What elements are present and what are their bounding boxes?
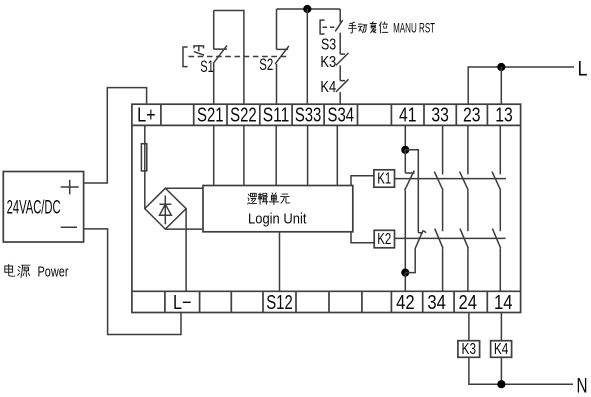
- plus symbol: [61, 180, 79, 195]
- wire node C to S33: [306, 9, 308, 104]
- wire 13-14 mid: [499, 190, 501, 231]
- wire top to S3: [339, 9, 341, 23]
- svg-text:S22: S22: [230, 105, 257, 127]
- minus symbol: [61, 226, 77, 228]
- svg-text:S34: S34: [328, 105, 355, 127]
- svg-text:13: 13: [495, 105, 513, 127]
- svg-text:24: 24: [459, 292, 478, 314]
- wire S11-S2 loop top: [277, 8, 341, 10]
- contact K2 NO 33-34: [435, 229, 443, 249]
- label dianyuan 源: [18, 265, 30, 277]
- svg-text:K4: K4: [320, 79, 336, 96]
- wire S34 to logic unit: [336, 125, 338, 185]
- svg-text:S2: S2: [259, 55, 273, 74]
- wire rectifier to L- terminal: [185, 209, 187, 292]
- wire 23 down: [467, 125, 469, 174]
- label shoudong fuwei 复: [370, 22, 376, 33]
- svg-text:MANU RST: MANU RST: [393, 19, 435, 35]
- label dianyuan 电: [5, 264, 15, 276]
- svg-text:Login Unit: Login Unit: [248, 210, 307, 227]
- node B junction dot: [401, 269, 409, 277]
- L supply line: [468, 67, 574, 104]
- contact K2 NO 13-14: [492, 229, 500, 249]
- mechanical link dashed: [189, 56, 290, 58]
- svg-text:K1: K1: [377, 171, 391, 188]
- svg-text:L: L: [578, 58, 588, 81]
- switch S2 NC: [275, 9, 289, 104]
- contact K1 NC 41-42: [405, 150, 415, 191]
- wire node B to terminal 42: [404, 273, 406, 292]
- main relay body: [132, 104, 521, 312]
- wire to 34: [442, 248, 444, 291]
- wire 33 down: [442, 125, 444, 174]
- svg-text:24VAC/DC: 24VAC/DC: [7, 198, 61, 219]
- contactor coil K4: [491, 341, 512, 358]
- wire S22 to logic unit: [243, 125, 245, 185]
- wire K4 to N: [500, 357, 502, 384]
- svg-text:33: 33: [431, 105, 449, 127]
- wire to 24: [467, 248, 469, 291]
- wire plus to L+: [84, 88, 147, 183]
- contact K1 NO 33-34: [434, 172, 443, 191]
- svg-text:K3: K3: [462, 341, 477, 358]
- label luoji danyuan 单: [269, 193, 278, 205]
- node C junction dot: [303, 5, 311, 13]
- svg-text:L−: L−: [173, 292, 192, 314]
- bottom terminal row: [132, 291, 521, 312]
- svg-text:23: 23: [463, 105, 481, 127]
- wire 23-24 mid: [467, 190, 469, 231]
- svg-text:S1: S1: [200, 57, 214, 76]
- wire logic unit to S12: [279, 232, 281, 291]
- node N junction dot: [497, 380, 505, 388]
- wire S21-S1-S22 loop top: [214, 11, 244, 105]
- label luoji danyuan 元: [280, 194, 289, 203]
- svg-text:S12: S12: [266, 292, 293, 314]
- wire minus to L-: [84, 229, 181, 335]
- switch S1 NC: [213, 11, 227, 105]
- svg-text:L+: L+: [137, 105, 156, 127]
- svg-text:14: 14: [494, 292, 513, 314]
- wire S33 to logic unit: [307, 125, 309, 185]
- wire rectifier top to logic unit: [165, 187, 203, 189]
- label shoudong fuwei 位: [380, 22, 388, 33]
- bypass wire node A down: [405, 150, 418, 233]
- top terminal row: [132, 104, 521, 125]
- svg-text:42: 42: [396, 292, 415, 314]
- power supply box 24VAC/DC: [3, 172, 83, 243]
- K1 actuation line: [395, 178, 507, 180]
- svg-text:Power: Power: [38, 263, 69, 280]
- wire logic unit to K2: [351, 232, 374, 243]
- reset button actuator: [320, 20, 324, 34]
- relay coil K2: [374, 230, 394, 248]
- svg-text:K3: K3: [320, 54, 336, 71]
- label shoudong fuwei 手: [348, 22, 356, 33]
- wire 41 to node A: [404, 125, 406, 149]
- node L junction dot: [497, 63, 505, 71]
- svg-text:S11: S11: [263, 105, 290, 127]
- wire S11 to logic unit: [275, 125, 277, 185]
- contact K2 NO 23-24: [460, 229, 468, 249]
- label luoji danyuan 辑: [258, 193, 268, 204]
- svg-text:K4: K4: [494, 341, 509, 358]
- wire logic unit to K1: [351, 176, 374, 186]
- wire 13 down: [499, 125, 501, 174]
- wire node L to 13: [500, 67, 502, 104]
- wire 14 to K4 coil: [500, 313, 502, 341]
- reset actuator dashes: [323, 26, 336, 28]
- svg-text:N: N: [577, 374, 588, 397]
- N supply line: [469, 357, 573, 384]
- svg-text:K2: K2: [377, 231, 391, 248]
- contact K1 NO 23-24: [460, 172, 469, 191]
- logic unit box: [203, 186, 353, 232]
- wire S3 to K3 contact: [339, 33, 341, 54]
- contactor coil K3: [458, 341, 480, 358]
- wire S21 to logic unit: [213, 125, 215, 185]
- node A junction dot: [401, 146, 409, 154]
- wire 24 to K3 coil: [468, 313, 470, 341]
- K2 actuation line: [395, 237, 506, 239]
- svg-text:S33: S33: [295, 105, 322, 127]
- svg-text:S21: S21: [197, 105, 224, 127]
- bridge rectifier: [145, 188, 186, 229]
- wire to 14: [499, 248, 501, 291]
- svg-text:41: 41: [399, 105, 417, 127]
- diode inside rectifier: [160, 196, 172, 225]
- contact K3 NC: [336, 53, 349, 66]
- contact K2 NC bypass: [415, 231, 426, 249]
- wire K4 to S34: [339, 92, 341, 104]
- svg-text:34: 34: [427, 292, 446, 314]
- svg-text:S3: S3: [321, 36, 336, 53]
- wire contact to node B: [404, 190, 406, 272]
- relay coil K1: [374, 170, 395, 187]
- wire rectifier bottom to logic unit: [165, 228, 203, 230]
- label shoudong fuwei 动: [358, 24, 367, 33]
- label luoji danyuan 逻: [248, 193, 257, 204]
- emergency stop actuator: [183, 46, 204, 67]
- fuse F1: [144, 125, 146, 208]
- contact K1 NO 13-14: [492, 172, 501, 191]
- wire 33-34 mid: [442, 190, 444, 231]
- wire bypass to node B: [405, 248, 415, 272]
- switch S3 NO: [335, 20, 343, 31]
- contact K4 NC: [336, 79, 349, 92]
- wire K3 to K4 contact: [339, 65, 341, 80]
